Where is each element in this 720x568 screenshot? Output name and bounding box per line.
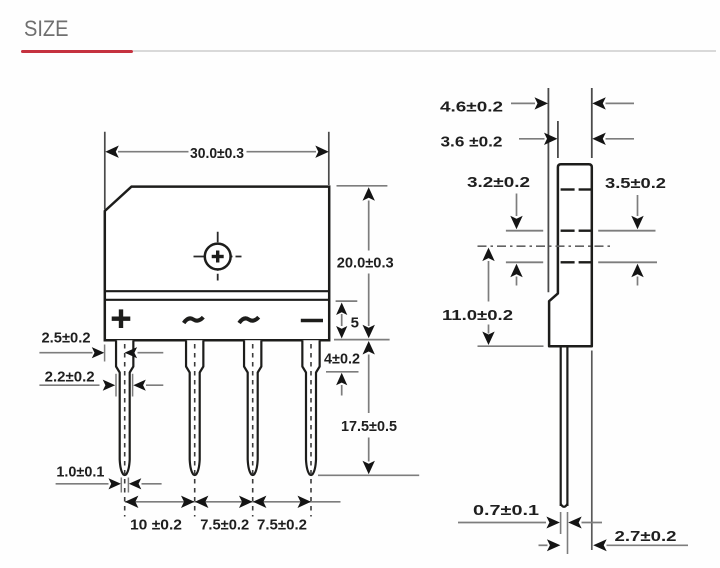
svg-text:11.0±0.2: 11.0±0.2 <box>442 307 513 324</box>
svg-text:2.5±0.2: 2.5±0.2 <box>42 330 91 347</box>
svg-text:7.5±0.2: 7.5±0.2 <box>200 517 249 534</box>
svg-text:20.0±0.3: 20.0±0.3 <box>337 255 394 272</box>
svg-text:2.7±0.2: 2.7±0.2 <box>615 528 677 545</box>
svg-text:10 ±0.2: 10 ±0.2 <box>130 517 182 534</box>
svg-text:17.5±0.5: 17.5±0.5 <box>341 418 397 435</box>
svg-text:4±0.2: 4±0.2 <box>324 351 360 368</box>
svg-text:4.6±0.2: 4.6±0.2 <box>440 99 503 116</box>
svg-text:5: 5 <box>351 315 359 332</box>
svg-text:3.5±0.2: 3.5±0.2 <box>605 175 666 192</box>
svg-text:7.5±0.2: 7.5±0.2 <box>257 517 307 534</box>
svg-text:1.0±0.1: 1.0±0.1 <box>56 463 104 480</box>
svg-text:0.7±0.1: 0.7±0.1 <box>473 502 539 519</box>
svg-text:2.2±0.2: 2.2±0.2 <box>45 368 95 385</box>
svg-text:3.6 ±0.2: 3.6 ±0.2 <box>441 134 503 151</box>
svg-text:3.2±0.2: 3.2±0.2 <box>467 174 530 191</box>
svg-text:30.0±0.3: 30.0±0.3 <box>190 145 244 162</box>
